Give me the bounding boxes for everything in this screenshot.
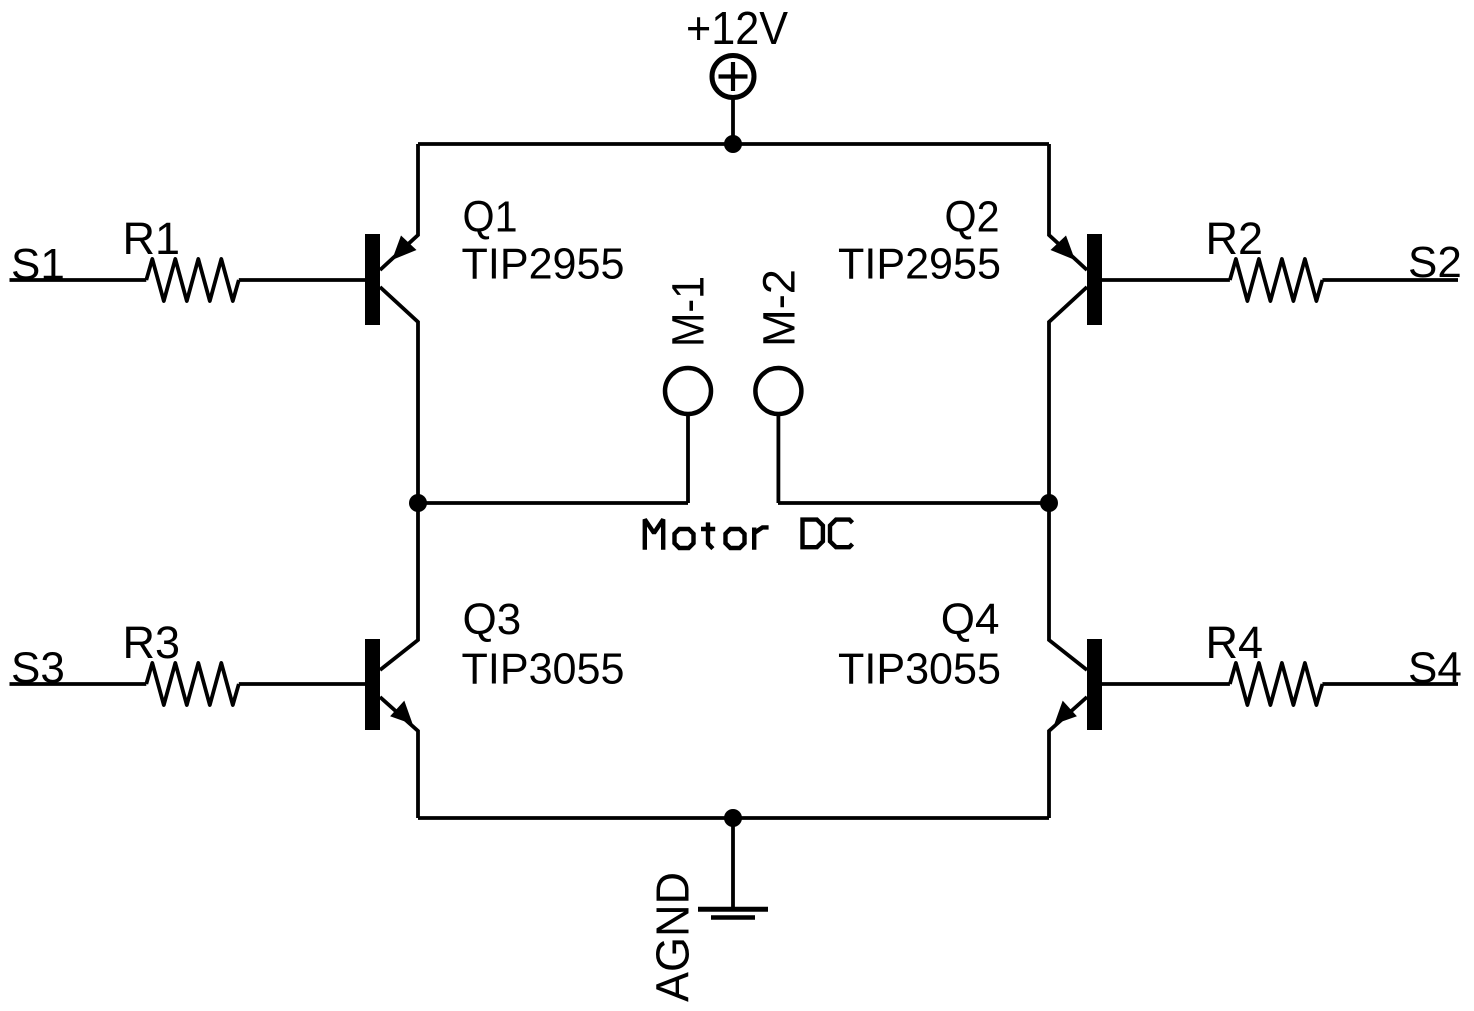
resistor R3	[123, 617, 239, 705]
transistor Q4	[838, 503, 1102, 818]
wire mid rail right	[778, 501, 1049, 505]
svg-text:+12V: +12V	[686, 2, 788, 54]
node junction bottom rail	[724, 809, 742, 827]
wire S1 stub	[10, 278, 147, 282]
svg-text:S2: S2	[1408, 238, 1462, 287]
Motor DC label (stroke font)	[645, 519, 853, 549]
svg-text:TIP3055: TIP3055	[462, 645, 625, 694]
resistor R1	[123, 213, 239, 301]
svg-text:R2: R2	[1206, 213, 1264, 264]
wire R4 to Q4 base	[1102, 682, 1230, 686]
wire S2 stub	[1322, 278, 1458, 282]
wire +12V to top rail	[731, 98, 735, 145]
svg-text:TIP3055: TIP3055	[838, 645, 1001, 694]
wire S4 stub	[1322, 682, 1458, 686]
wire top rail	[418, 142, 1049, 146]
wire R1 to Q1 base	[239, 278, 365, 282]
svg-text:R3: R3	[123, 617, 181, 668]
svg-text:Q3: Q3	[463, 595, 522, 644]
svg-text:R1: R1	[123, 213, 181, 264]
transistor Q2	[838, 144, 1102, 503]
svg-text:S4: S4	[1408, 644, 1462, 693]
resistor R4	[1206, 617, 1323, 705]
svg-text:S1: S1	[11, 240, 65, 289]
svg-text:Q2: Q2	[945, 193, 1000, 242]
svg-text:S3: S3	[11, 644, 65, 693]
ground AGND symbol	[698, 909, 768, 917]
svg-text:Q1: Q1	[463, 193, 518, 242]
node junction mid-right	[1040, 494, 1058, 512]
wire bottom rail	[418, 816, 1049, 820]
node junction mid-left	[409, 494, 427, 512]
svg-text:Q4: Q4	[941, 595, 1000, 644]
svg-text:M-2: M-2	[754, 269, 805, 347]
wire mid rail left	[418, 501, 688, 505]
svg-text:AGND: AGND	[647, 872, 699, 1002]
wire S3 stub	[10, 682, 147, 686]
svg-text:M-1: M-1	[663, 276, 714, 347]
transistor Q1	[365, 144, 625, 503]
motor terminal M-2	[754, 269, 805, 503]
svg-text:R4: R4	[1206, 617, 1264, 668]
wire R2 to Q2 base	[1102, 278, 1230, 282]
node junction top rail	[724, 135, 742, 153]
wire R3 to Q3 base	[239, 682, 365, 686]
resistor R2	[1206, 213, 1323, 301]
wire to ground	[731, 818, 735, 907]
svg-text:TIP2955: TIP2955	[838, 240, 1001, 289]
svg-text:TIP2955: TIP2955	[462, 240, 625, 289]
power +12V supply symbol	[712, 56, 754, 98]
transistor Q3	[365, 503, 625, 818]
motor terminal M-1	[663, 276, 714, 503]
